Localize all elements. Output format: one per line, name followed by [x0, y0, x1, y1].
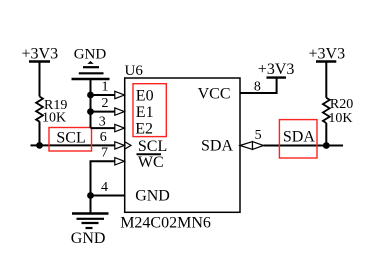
net label box SDA (red): [279, 120, 317, 158]
wire stub left of SCL node: [31, 144, 40, 146]
svg-text:+3V3: +3V3: [309, 46, 346, 63]
power +3V3 (middle): [267, 76, 287, 78]
svg-text:E1: E1: [136, 104, 154, 121]
junction pin1: [87, 92, 94, 99]
svg-text:E0: E0: [136, 87, 154, 104]
junction pin2: [87, 108, 94, 115]
wire pin2: [91, 111, 116, 113]
power +3V3 (right): [316, 60, 336, 62]
power +3V3 (left): [29, 62, 50, 97]
pin 7 input triangle: [115, 158, 125, 165]
pin 6 input triangle: [115, 142, 125, 149]
pin 6 clock chevron: [125, 142, 131, 149]
svg-text:2: 2: [102, 96, 109, 111]
svg-text:6: 6: [100, 130, 107, 145]
pin 3 input triangle: [115, 124, 125, 131]
junction pin4: [87, 192, 94, 199]
resistor R19: [36, 97, 43, 122]
svg-text:SDA: SDA: [201, 138, 233, 155]
IC U6 body: [125, 78, 240, 212]
svg-text:U6: U6: [125, 63, 144, 79]
wire ground bus to pins 1-3: [90, 79, 92, 128]
junction node SCL: [36, 142, 43, 149]
svg-text:SDA: SDA: [283, 128, 315, 145]
resistor R20: [323, 98, 330, 123]
svg-text:GND: GND: [71, 230, 106, 247]
svg-text:VCC: VCC: [198, 86, 231, 103]
svg-text:3: 3: [99, 115, 106, 130]
svg-text:WC: WC: [138, 154, 164, 171]
junction SDA/R20: [323, 142, 330, 149]
wire pin7: [91, 161, 116, 195]
svg-text:1: 1: [102, 80, 109, 95]
wire R19 bottom to SCL node: [39, 122, 41, 146]
wire pin1: [91, 94, 116, 96]
svg-text:GND: GND: [74, 47, 107, 63]
svg-text:M24C02MN6: M24C02MN6: [120, 215, 211, 232]
ground symbol (top): [72, 61, 110, 79]
svg-text:7: 7: [101, 146, 108, 161]
net label box SCL (red): [49, 128, 92, 152]
svg-text:4: 4: [101, 180, 108, 195]
svg-text:8: 8: [254, 80, 261, 95]
wire pin4: [91, 195, 126, 197]
svg-text:E2: E2: [135, 121, 153, 138]
svg-text:SCL: SCL: [138, 138, 167, 155]
svg-text:R20: R20: [330, 97, 353, 112]
svg-text:GND: GND: [135, 188, 170, 205]
wire pin5 SDA: [264, 145, 344, 147]
svg-text:+3V3: +3V3: [258, 61, 295, 78]
pin 2 input triangle: [115, 108, 125, 115]
wire pin3: [91, 127, 116, 129]
overline of WC: [137, 153, 162, 155]
wire R20 bottom: [325, 123, 327, 146]
svg-text:10K: 10K: [328, 111, 352, 126]
pin 5 bidirectional arrow: [240, 142, 253, 150]
wire pin8: [240, 78, 277, 93]
red highlight box E0-E2: [133, 84, 166, 137]
wire R20 top: [325, 62, 327, 98]
svg-text:5: 5: [255, 128, 262, 143]
svg-text:+3V3: +3V3: [22, 46, 59, 63]
pin 1 input triangle: [115, 91, 125, 98]
ground GND (bottom): [72, 196, 109, 229]
svg-text:10K: 10K: [42, 111, 66, 126]
wire SCL node to pin 6: [40, 144, 116, 146]
svg-text:SCL: SCL: [56, 129, 85, 146]
